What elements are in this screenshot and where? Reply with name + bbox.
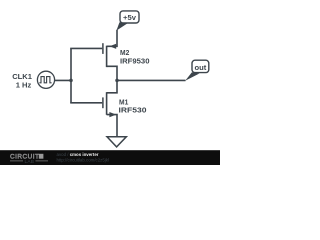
wire: CLK1 output to gate node xyxy=(55,79,71,81)
svg-text:1 Hz: 1 Hz xyxy=(16,80,32,89)
footer watermark bar xyxy=(0,150,220,165)
wire: output node to out flag xyxy=(117,79,186,81)
transistor M1 IRF530 NMOS xyxy=(103,80,117,136)
svg-text:IRF530: IRF530 xyxy=(119,105,147,114)
svg-text:http://circuitlab.com/c2z5jkl: http://circuitlab.com/c2z5jkl xyxy=(57,157,109,162)
junction: gate node xyxy=(69,79,73,83)
svg-text:avod / cmos inverter: avod / cmos inverter xyxy=(57,152,99,157)
wire: M2 gate lead xyxy=(70,47,102,49)
svg-text:out: out xyxy=(194,63,206,72)
svg-text:LAB: LAB xyxy=(25,159,35,165)
transistor M2 IRF9530 PMOS xyxy=(103,30,117,81)
clock source CLK1 xyxy=(37,71,54,88)
svg-text:+5v: +5v xyxy=(123,13,137,22)
wire: gate bus vertical xyxy=(70,48,72,102)
svg-text:IRF9530: IRF9530 xyxy=(120,56,150,65)
ground xyxy=(107,137,126,147)
power flag +5v xyxy=(116,11,139,31)
junction: output node xyxy=(115,79,119,83)
wire: M1 gate lead xyxy=(70,102,102,104)
net flag out xyxy=(185,60,209,81)
